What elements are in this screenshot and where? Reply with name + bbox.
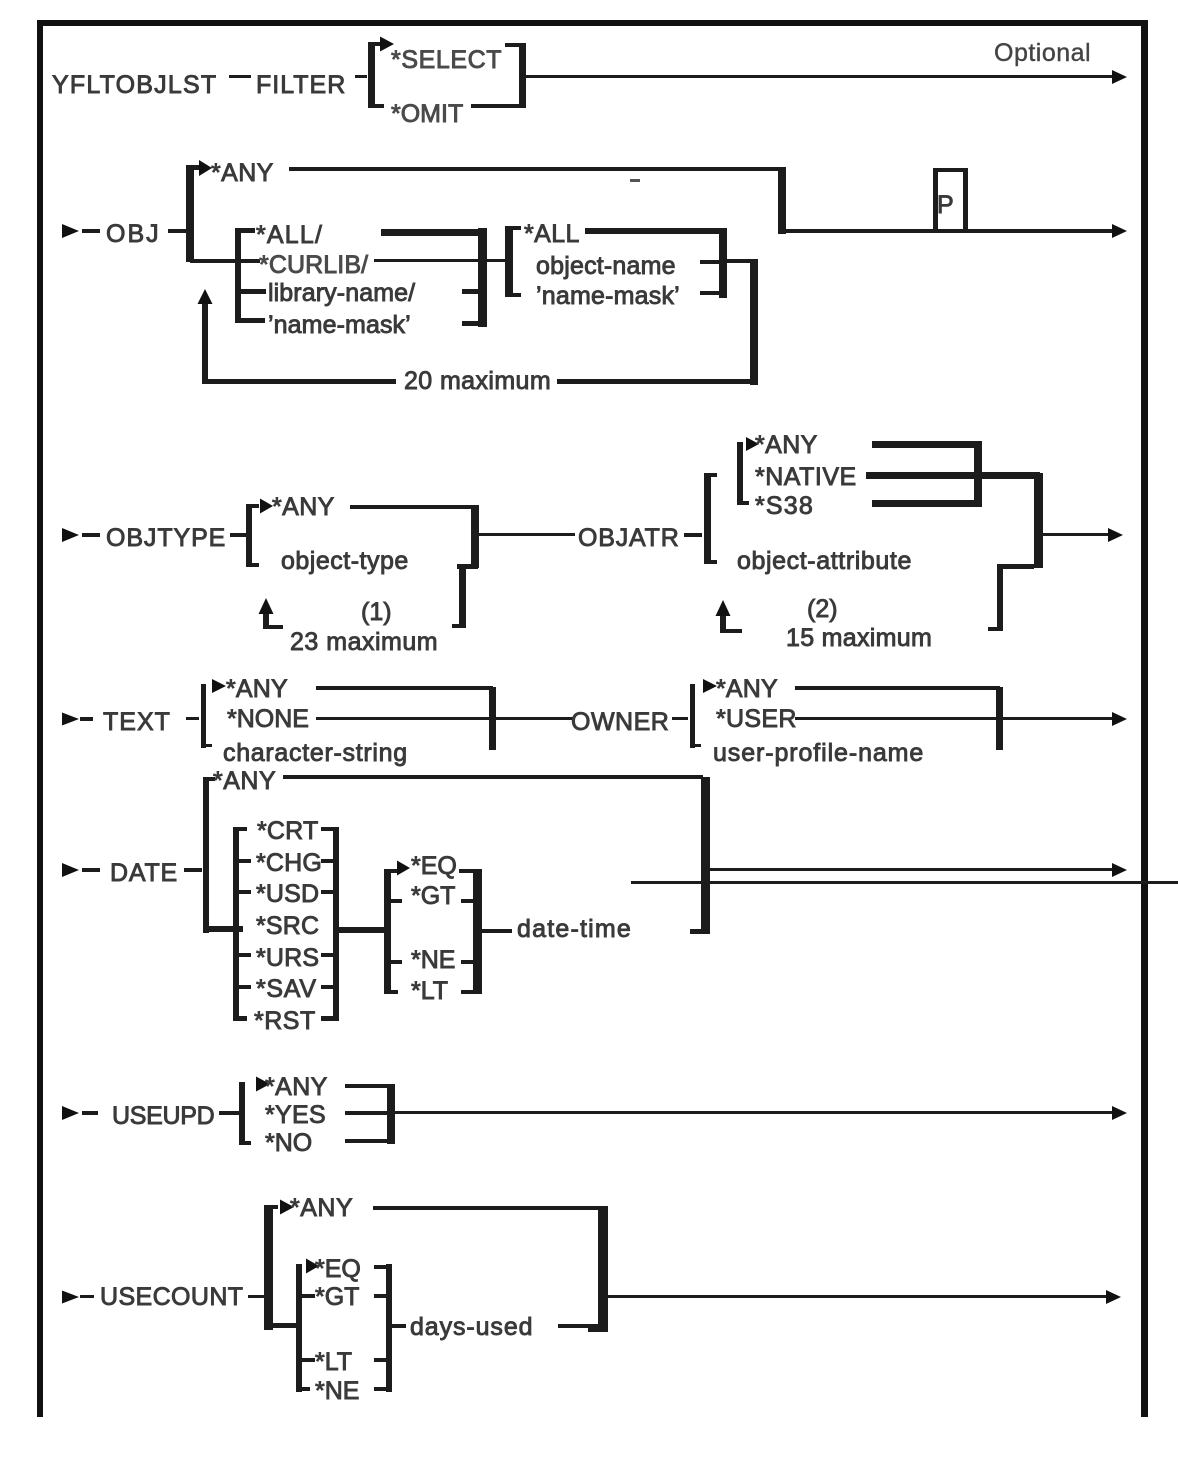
svg-text:*ALL: *ALL: [524, 220, 580, 248]
svg-text:Optional: Optional: [994, 39, 1091, 67]
svg-text:(2): (2): [807, 595, 838, 623]
svg-text:object-type: object-type: [281, 547, 409, 575]
svg-text:*ALL/: *ALL/: [256, 221, 323, 249]
svg-text:date-time: date-time: [517, 915, 632, 943]
svg-text:character-string: character-string: [223, 739, 408, 767]
wire after *ANY of USECOUNT: [373, 1206, 600, 1210]
FILTER branch right bracket: [505, 43, 526, 47]
default arrow to *EQ of USECOUNT: [306, 1259, 319, 1274]
default arrow to *ANY of OWNER: [703, 679, 717, 693]
svg-text:*OMIT: *OMIT: [391, 100, 463, 128]
row3 entry arrow: [62, 528, 79, 542]
repeat loop bottom wire right: [557, 379, 752, 384]
svg-text:*GT: *GT: [315, 1283, 359, 1311]
wire to repeat drop: [727, 259, 758, 263]
svg-text:*ANY: *ANY: [290, 1194, 353, 1222]
row7 entry arrow: [62, 1291, 79, 1304]
wire to date-time: [482, 929, 512, 933]
OBJATR inner bracket: [737, 442, 743, 505]
svg-text:*ANY: *ANY: [755, 431, 818, 459]
row4 main wire left: [316, 717, 573, 720]
svg-text:’name-mask’: ’name-mask’: [268, 311, 411, 339]
row2 arrowhead: [1112, 224, 1127, 238]
OWNER right bracket: [996, 687, 1003, 750]
svg-text:*NE: *NE: [315, 1377, 359, 1405]
svg-text:*LT: *LT: [411, 977, 448, 1005]
USEUPD right bracket: [387, 1084, 395, 1144]
svg-text:USECOUNT: USECOUNT: [100, 1283, 243, 1311]
svg-text:*EQ: *EQ: [411, 852, 457, 880]
DATE EQ right bracket: [473, 869, 482, 994]
wire drop from *ANY to main: [778, 167, 786, 234]
wire after *ANY of OWNER: [795, 686, 1000, 690]
wire dash after YFLTOBJLST: [229, 75, 251, 78]
OBJATR repeat step wire: [1002, 564, 1034, 569]
svg-text:*GT: *GT: [411, 882, 455, 910]
row3 arrowhead: [1108, 528, 1123, 542]
parameter P box: [933, 168, 938, 231]
wire after *ANY of OBJTYPE: [350, 505, 475, 509]
row2 main wire: [786, 229, 1116, 233]
svg-text:*NO: *NO: [265, 1129, 312, 1157]
svg-text:DATE: DATE: [110, 859, 178, 887]
repeat loop up arrow: [202, 300, 208, 383]
DATE trunk wire to EQ group: [339, 927, 384, 933]
svg-text:20 maximum: 20 maximum: [404, 367, 551, 395]
OBJATR repeat up arrow: [720, 609, 726, 633]
svg-text:(1): (1): [361, 598, 392, 626]
svg-text:USEUPD: USEUPD: [112, 1102, 214, 1130]
repeat loop bottom wire left: [202, 379, 396, 384]
svg-text:*S38: *S38: [755, 492, 814, 520]
svg-text:FILTER: FILTER: [256, 71, 346, 99]
DATE outer bracket: [203, 777, 209, 933]
wire after *ANY of OBJATR: [872, 441, 980, 448]
svg-text:*NONE: *NONE: [227, 705, 309, 733]
wire dash after TEXT: [186, 717, 199, 720]
wire dash after OBJTYPE: [230, 533, 247, 537]
svg-text:OBJ: OBJ: [106, 220, 161, 248]
OBJATR outer bracket: [704, 473, 711, 564]
default arrow to *ANY of USEUPD: [256, 1077, 270, 1092]
wire dash after OBJATR: [684, 533, 702, 537]
svg-text:*SAV: *SAV: [256, 975, 317, 1003]
OBJTYPE repeat step wire: [457, 564, 478, 569]
svg-text:TEXT: TEXT: [103, 708, 171, 736]
stub after object-name: [700, 260, 719, 264]
OWNER branch bracket: [690, 684, 695, 748]
svg-text:*ANY: *ANY: [716, 675, 778, 703]
frame top border: [37, 20, 1148, 26]
wire dash after USECOUNT: [248, 1295, 264, 1298]
row2 entry arrow: [62, 224, 79, 238]
svg-text:P: P: [937, 191, 954, 219]
row6 entry arrow: [62, 1106, 79, 1120]
row3 wire to OBJATR: [479, 533, 575, 536]
row5 main wire: [710, 868, 1116, 871]
object group right bracket: [719, 228, 727, 298]
DATE items bracket: [233, 827, 239, 1021]
svg-text:*URS: *URS: [256, 944, 319, 972]
row1 main wire: [526, 75, 1115, 78]
default arrow to *EQ of DATE: [397, 861, 410, 876]
default arrow to *ANY of OBJTYPE: [260, 499, 273, 514]
wire after *YES: [345, 1111, 390, 1115]
row7 main wire: [608, 1295, 1110, 1298]
wire after *ANY of USEUPD: [345, 1084, 390, 1088]
svg-text:’name-mask’: ’name-mask’: [536, 282, 680, 310]
row6 main wire: [395, 1111, 1116, 1114]
svg-text:*CRT: *CRT: [257, 817, 318, 845]
row7 arrowhead: [1106, 1290, 1121, 1304]
default arrow to *ANY of OBJATR: [746, 437, 759, 451]
OBJ branch bracket: [186, 165, 194, 262]
object group left bracket: [505, 226, 513, 297]
svg-text:days-used: days-used: [410, 1313, 533, 1341]
svg-text:library-name/: library-name/: [268, 279, 415, 307]
svg-text:*ANY: *ANY: [265, 1073, 328, 1101]
DATE items right bracket: [333, 827, 339, 1021]
svg-text:*ANY: *ANY: [211, 159, 274, 187]
OBJTYPE repeat up arrow: [263, 607, 269, 629]
default arrow to *ANY of TEXT: [212, 679, 226, 693]
wire after *ALL: [585, 228, 719, 234]
wire dash after OBJ: [168, 229, 186, 233]
wire dash after DATE: [184, 868, 202, 872]
wire after *S38: [872, 500, 980, 507]
scan artifact dash: [630, 179, 640, 182]
row4 main wire right: [795, 717, 1116, 720]
svg-text:*YES: *YES: [265, 1101, 326, 1129]
svg-text:15 maximum: 15 maximum: [786, 624, 932, 652]
USEUPD branch bracket: [239, 1082, 245, 1145]
svg-text:OBJTYPE: OBJTYPE: [106, 524, 226, 552]
wire after *ANY of DATE: [283, 775, 703, 779]
DATE right bracket: [701, 777, 710, 934]
row5 entry arrow: [62, 863, 79, 877]
svg-text:*CHG: *CHG: [256, 849, 322, 877]
frame right border: [1141, 20, 1148, 1417]
default arrow to *SELECT: [380, 37, 394, 52]
svg-text:*NE: *NE: [411, 946, 455, 974]
svg-text:*NATIVE: *NATIVE: [755, 463, 857, 491]
wire dash after OWNER: [672, 717, 688, 720]
svg-text:YFLTOBJLST: YFLTOBJLST: [52, 71, 217, 99]
svg-text:*SELECT: *SELECT: [391, 46, 502, 74]
row1 arrowhead: [1112, 70, 1127, 84]
svg-text:*EQ: *EQ: [315, 1255, 361, 1283]
wire to library group: [190, 259, 260, 263]
TEXT branch bracket: [201, 684, 206, 748]
svg-text:*SRC: *SRC: [256, 912, 319, 940]
DATE EQ bracket: [384, 869, 391, 994]
svg-text:user-profile-name: user-profile-name: [713, 739, 924, 767]
wire dash after USEUPD: [219, 1111, 239, 1115]
repeat loop drop wire: [750, 259, 758, 385]
wire after *NO: [345, 1139, 390, 1143]
wire to days-used: [392, 1324, 406, 1328]
FILTER branch left bracket: [368, 42, 375, 108]
svg-text:OWNER: OWNER: [571, 708, 669, 736]
thick wire after *ALL/: [381, 229, 479, 236]
USECOUNT EQ right bracket: [386, 1264, 392, 1392]
library group left bracket: [235, 228, 241, 323]
row4 arrowhead: [1112, 712, 1127, 726]
row6 arrowhead: [1112, 1106, 1127, 1120]
stub after name-mask: [700, 291, 719, 295]
wire after *CURLIB/: [374, 259, 509, 262]
OBJATR inner right bracket: [974, 441, 982, 507]
wire dash after FILTER: [355, 75, 367, 78]
row5 arrowhead: [1112, 863, 1127, 877]
svg-text:*ANY: *ANY: [213, 767, 276, 795]
USECOUNT outer bracket: [264, 1205, 273, 1330]
wire after *ANY of OBJ: [289, 167, 780, 171]
USECOUNT EQ bracket: [296, 1264, 302, 1392]
default arrow to *ANY of OBJ: [199, 160, 212, 176]
svg-text:*RST: *RST: [254, 1007, 316, 1035]
svg-text:OBJATR: OBJATR: [578, 524, 680, 552]
DATE trunk corner: [203, 926, 243, 932]
library group right bracket: [478, 228, 487, 327]
TEXT right bracket: [489, 687, 496, 750]
wire after *ANY of TEXT: [316, 686, 493, 690]
row3 main exit wire: [1043, 533, 1108, 536]
wire after *NATIVE: [866, 472, 1040, 479]
OBJTYPE right bracket: [471, 505, 479, 568]
row5 stray wire to edge: [631, 881, 1178, 884]
svg-text:*ANY: *ANY: [272, 493, 335, 521]
row4 entry arrow: [62, 713, 79, 726]
svg-text:*USER: *USER: [716, 705, 797, 733]
svg-text:*CURLIB/: *CURLIB/: [259, 251, 368, 279]
OBJATR outer right bracket: [1034, 473, 1043, 568]
svg-text:object-attribute: object-attribute: [737, 547, 912, 575]
svg-text:23 maximum: 23 maximum: [290, 628, 438, 656]
svg-text:object-name: object-name: [536, 252, 676, 280]
default arrow to *ANY of USECOUNT: [280, 1200, 294, 1215]
USECOUNT right bracket: [598, 1206, 608, 1332]
svg-text:*LT: *LT: [315, 1348, 352, 1376]
wire after days-used: [558, 1324, 600, 1328]
wire after *OMIT: [471, 104, 515, 108]
svg-text:*ANY: *ANY: [226, 675, 288, 703]
svg-text:*USD: *USD: [256, 880, 319, 908]
frame left border: [37, 20, 43, 1417]
OBJTYPE branch bracket: [246, 504, 252, 567]
